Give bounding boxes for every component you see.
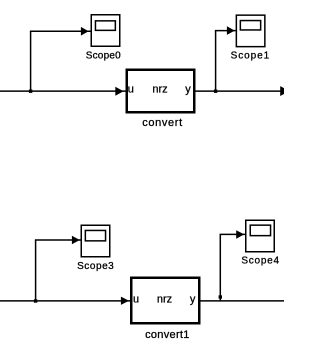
svg-text:Scope1: Scope1 — [231, 51, 271, 62]
arrowhead at right edge top — [280, 86, 289, 96]
svg-text:nrz: nrz — [152, 83, 167, 95]
svg-text:Scope0: Scope0 — [86, 51, 121, 62]
scope Scope1 — [236, 15, 265, 47]
scope Scope0 — [91, 15, 120, 47]
svg-text:nrz: nrz — [157, 293, 172, 305]
node junction top-right — [214, 90, 217, 93]
block convert — [127, 70, 195, 113]
arrowhead into Scope3 — [72, 236, 80, 245]
node junction bottom-right — [219, 295, 222, 298]
svg-text:convert1: convert1 — [145, 329, 190, 341]
arrowhead into Scope1 — [227, 26, 235, 35]
wire horizontal into Scope4 — [220, 233, 246, 235]
wire horizontal into Scope0 — [30, 30, 91, 32]
wire horizontal into Scope1 — [215, 30, 236, 32]
wire output line top — [196, 90, 285, 92]
wire vertical branch to Scope4 — [219, 234, 221, 301]
block convert1 — [131, 278, 199, 324]
svg-text:y: y — [190, 293, 196, 305]
arrowhead into Scope4 — [236, 230, 244, 239]
svg-text:Scope3: Scope3 — [77, 261, 114, 272]
wire main input line top — [0, 90, 126, 92]
svg-text:Scope4: Scope4 — [241, 256, 279, 267]
wire main input line bottom — [0, 300, 130, 302]
svg-text:convert: convert — [142, 117, 183, 129]
arrowhead into Scope0 — [81, 27, 89, 36]
wire vertical branch to Scope3 — [35, 240, 37, 301]
svg-text:u: u — [128, 83, 134, 95]
svg-text:y: y — [185, 83, 191, 95]
node junction top-left — [29, 90, 32, 93]
arrowhead into convert block — [115, 87, 123, 96]
scope Scope3 — [81, 225, 110, 257]
wire output line bottom — [201, 300, 285, 302]
node junction bottom-left — [34, 299, 37, 302]
wire horizontal into Scope3 — [35, 239, 81, 241]
svg-text:u: u — [133, 293, 139, 305]
wire vertical branch to Scope0 — [30, 31, 32, 91]
scope Scope4 — [246, 220, 275, 252]
wire vertical branch to Scope1 — [215, 31, 217, 92]
arrowhead into convert1 block — [121, 297, 129, 305]
